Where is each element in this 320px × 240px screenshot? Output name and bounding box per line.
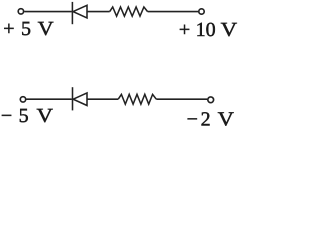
wire xyxy=(87,11,110,13)
svg-text:5: 5 xyxy=(21,18,31,40)
wire xyxy=(156,98,207,100)
label +5 V xyxy=(3,18,54,40)
svg-text:V: V xyxy=(38,18,55,40)
diode D1 xyxy=(72,2,87,24)
wire xyxy=(87,98,118,100)
svg-text:10: 10 xyxy=(196,19,216,41)
resistor R2 xyxy=(118,94,156,104)
svg-text:2: 2 xyxy=(201,108,211,130)
svg-text:5: 5 xyxy=(19,105,29,127)
wire xyxy=(26,98,72,100)
svg-text:V: V xyxy=(221,19,238,41)
label -2 V xyxy=(187,108,235,130)
svg-text:−: − xyxy=(187,108,198,130)
svg-text:−: − xyxy=(1,105,12,127)
node B terminal (top-right, +10 V output) xyxy=(199,9,204,14)
node A terminal (top-left, +5 V input) xyxy=(18,9,23,14)
svg-text:+: + xyxy=(179,19,190,41)
label +10 V xyxy=(179,19,238,41)
resistor R1 xyxy=(110,7,148,16)
svg-text:+: + xyxy=(3,18,14,40)
svg-text:V: V xyxy=(218,108,235,130)
wire xyxy=(24,11,71,13)
svg-text:V: V xyxy=(37,105,54,127)
wire xyxy=(148,11,199,13)
diode D2 xyxy=(73,87,88,110)
label -5 V xyxy=(1,105,54,127)
node D terminal (bottom-right, -2 V output) xyxy=(208,97,214,103)
node C terminal (bottom-left, -5 V input) xyxy=(20,97,25,102)
